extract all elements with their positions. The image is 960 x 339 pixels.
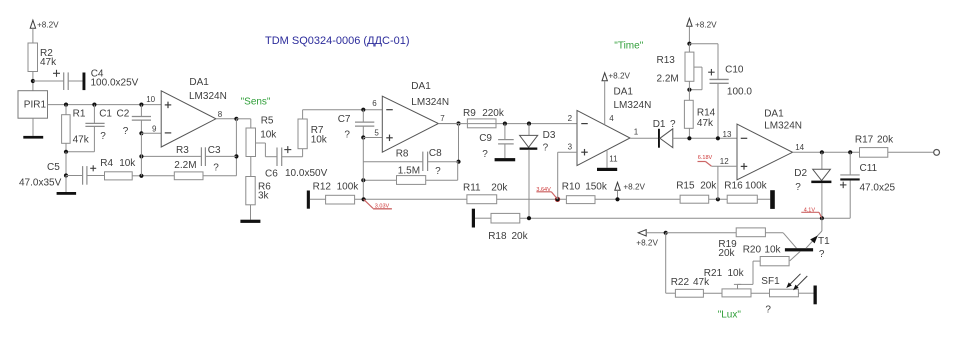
resistor R6 bbox=[246, 177, 271, 205]
wire pin3 net bbox=[558, 143, 577, 200]
resistor R8 bbox=[397, 176, 426, 185]
svg-text:?: ? bbox=[482, 149, 488, 160]
ground under C9 bbox=[495, 158, 516, 161]
ground under PIR1 bbox=[23, 118, 43, 138]
op-amp U1A DA1 bbox=[161, 77, 227, 147]
potentiometer R13 bbox=[657, 44, 703, 90]
svg-text:6.18V: 6.18V bbox=[698, 155, 713, 161]
svg-text:12: 12 bbox=[720, 157, 729, 166]
wire R17 to terminal bbox=[888, 151, 934, 153]
pin 10 label bbox=[146, 95, 155, 104]
svg-text:?: ? bbox=[670, 119, 676, 130]
svg-text:?: ? bbox=[123, 126, 129, 137]
svg-text:10.0x50V: 10.0x50V bbox=[285, 168, 328, 179]
svg-text:?: ? bbox=[100, 131, 106, 142]
svg-text:PIR1: PIR1 bbox=[24, 99, 47, 110]
resistor R20 bbox=[743, 244, 789, 265]
svg-text:3k: 3k bbox=[258, 190, 270, 201]
svg-text:47.0x35V: 47.0x35V bbox=[19, 178, 62, 189]
svg-text:2.2M: 2.2M bbox=[657, 74, 679, 85]
node D3 top bbox=[527, 122, 531, 126]
svg-text:100k: 100k bbox=[337, 182, 360, 193]
svg-text:C9: C9 bbox=[479, 133, 492, 144]
node D2 top bbox=[820, 150, 824, 154]
svg-text:8: 8 bbox=[218, 110, 223, 119]
node C10 bottom bbox=[716, 136, 720, 140]
op-amp U1B DA1 bbox=[382, 81, 449, 152]
node D2 low rail bbox=[820, 216, 824, 220]
capacitor C6 bbox=[265, 146, 328, 179]
potentiometer R21 bbox=[704, 268, 751, 297]
capacitor C3 bbox=[201, 145, 221, 174]
node pin9 bbox=[139, 131, 143, 135]
svg-text:TDM SQ0324-0006 (ДДС-01): TDM SQ0324-0006 (ДДС-01) bbox=[265, 35, 410, 47]
svg-text:R15: R15 bbox=[676, 180, 695, 191]
node D3 low rail bbox=[527, 216, 531, 220]
svg-text:R14: R14 bbox=[697, 107, 716, 118]
resistor R22 bbox=[671, 277, 710, 297]
svg-text:9: 9 bbox=[152, 125, 157, 134]
svg-text:3.03V: 3.03V bbox=[375, 203, 390, 209]
svg-text:D2: D2 bbox=[794, 168, 807, 179]
node rail/x363 bbox=[362, 197, 366, 201]
wire down to C5 node bbox=[65, 152, 67, 176]
node C5 branch bbox=[64, 173, 68, 177]
wire R20 to R21 wiper bbox=[738, 261, 761, 284]
svg-text:1: 1 bbox=[634, 128, 639, 137]
resistor R1 bbox=[62, 105, 90, 152]
feedback vertical x458 bbox=[458, 124, 460, 162]
svg-text:10k: 10k bbox=[764, 244, 781, 255]
svg-text:47k: 47k bbox=[697, 118, 714, 129]
transistor T1 bbox=[785, 218, 830, 261]
node R13/R14 bbox=[687, 88, 691, 92]
wire pin7 to op3 pin2 bbox=[438, 114, 577, 123]
svg-text:C5: C5 bbox=[47, 162, 60, 173]
node R2/C4/PIR1 bbox=[31, 79, 35, 83]
svg-text:+8.2V: +8.2V bbox=[695, 21, 717, 30]
svg-text:4: 4 bbox=[609, 114, 614, 123]
svg-text:"Time": "Time" bbox=[614, 41, 643, 52]
svg-text:100.0x25V: 100.0x25V bbox=[91, 78, 139, 89]
svg-text:C1: C1 bbox=[99, 108, 112, 119]
svg-text:20k: 20k bbox=[718, 248, 735, 259]
op-amp U1D DA1 bbox=[737, 108, 802, 179]
svg-text:?: ? bbox=[765, 305, 771, 316]
wire R4 to node bbox=[132, 175, 141, 177]
svg-text:150k: 150k bbox=[585, 181, 608, 192]
sensor PIR1 bbox=[18, 91, 48, 119]
wire R2 bottom to PIR1 bbox=[32, 72, 34, 91]
node lower feedback2 bbox=[361, 178, 365, 182]
resistor R17 bbox=[855, 135, 894, 158]
common bar at SF1 bbox=[814, 286, 817, 305]
pin 1 output wire bbox=[630, 128, 658, 139]
power +8.2V left arrow bbox=[636, 230, 665, 248]
wire C8 feedback bbox=[363, 161, 458, 163]
svg-text:+8.2V: +8.2V bbox=[37, 20, 59, 29]
svg-text:LM324N: LM324N bbox=[189, 91, 227, 102]
svg-text:C2: C2 bbox=[117, 108, 130, 119]
voltage label 3.03V bbox=[364, 199, 392, 209]
resistor R14 bbox=[684, 81, 715, 138]
svg-text:R20: R20 bbox=[743, 244, 762, 255]
wire R19 to T1 base bbox=[765, 233, 796, 248]
node C2 top pin10 bbox=[139, 103, 143, 107]
wire R21 to SF1 bbox=[751, 292, 770, 294]
resistor R19 bbox=[718, 228, 765, 259]
label Sens bbox=[241, 97, 271, 108]
node C11 top bbox=[848, 150, 852, 154]
svg-text:6: 6 bbox=[372, 99, 377, 108]
diode D2 bbox=[794, 152, 831, 218]
wire lux vertical bbox=[666, 233, 676, 293]
wire lower feedback bbox=[141, 175, 236, 177]
wire bar to R18 bbox=[475, 217, 491, 219]
svg-text:3: 3 bbox=[568, 143, 573, 152]
svg-text:100k: 100k bbox=[745, 180, 768, 191]
pin 7 wire bbox=[438, 114, 458, 124]
node C9 top bbox=[503, 122, 507, 126]
svg-text:47k: 47k bbox=[73, 134, 90, 145]
wire pin9 bbox=[141, 125, 161, 134]
voltage label 4.1V bbox=[801, 207, 821, 217]
node C1 top bbox=[92, 103, 96, 107]
svg-text:LM324N: LM324N bbox=[614, 100, 652, 111]
label Lux bbox=[718, 310, 742, 321]
wire R22 to R21 bbox=[703, 292, 722, 294]
main horizontal rail bbox=[310, 198, 770, 200]
node pin3 rail red bbox=[555, 197, 560, 202]
wire to R19 bbox=[666, 232, 737, 234]
node R14 bottom bbox=[687, 136, 691, 140]
label Time bbox=[614, 41, 643, 52]
wire PIR1 to op-amp pin10 bbox=[48, 104, 162, 106]
svg-text:"Lux": "Lux" bbox=[718, 310, 742, 321]
title label bbox=[265, 35, 410, 47]
wire C3 upper feedback bbox=[141, 155, 236, 157]
feedback vertical x236 bbox=[235, 119, 237, 176]
svg-text:C3: C3 bbox=[208, 145, 221, 156]
vertical net x363 bbox=[362, 138, 364, 200]
svg-text:R12: R12 bbox=[313, 182, 332, 193]
svg-text:DA1: DA1 bbox=[764, 108, 784, 119]
photoresistor SF1 bbox=[761, 276, 798, 316]
node feedback2 upper bbox=[456, 160, 460, 164]
node pin5 bbox=[361, 135, 365, 139]
resistor R16 bbox=[724, 180, 767, 203]
svg-text:47k: 47k bbox=[40, 57, 57, 68]
svg-text:R18: R18 bbox=[488, 231, 507, 242]
wire D3 down to low rail bbox=[528, 150, 530, 218]
pin 12 wire bbox=[711, 157, 737, 199]
vertical net x141 bbox=[140, 133, 142, 176]
capacitor C7 bbox=[338, 110, 375, 141]
potentiometer R21 wiper bbox=[734, 284, 741, 289]
svg-text:R22: R22 bbox=[671, 277, 690, 288]
ground under C5 node bbox=[57, 176, 77, 195]
svg-text:DA1: DA1 bbox=[614, 87, 634, 98]
photo arrows SF1 bbox=[786, 274, 807, 290]
capacitor C5 bbox=[19, 162, 105, 189]
capacitor C1 bbox=[85, 105, 112, 152]
svg-text:11: 11 bbox=[609, 155, 618, 164]
wire pin6 net bbox=[303, 99, 383, 110]
svg-text:R8: R8 bbox=[396, 148, 409, 159]
svg-text:SF1: SF1 bbox=[761, 276, 780, 287]
svg-text:20k: 20k bbox=[700, 180, 717, 191]
capacitor C4 bbox=[53, 69, 139, 90]
svg-text:DA1: DA1 bbox=[411, 81, 431, 92]
svg-text:14: 14 bbox=[795, 143, 804, 152]
svg-text:C10: C10 bbox=[725, 65, 744, 76]
capacitor C2 bbox=[117, 105, 152, 137]
svg-text:DA1: DA1 bbox=[189, 77, 209, 88]
svg-text:+8.2V: +8.2V bbox=[623, 183, 645, 192]
ground under R6 bbox=[240, 205, 260, 223]
svg-text:?: ? bbox=[344, 130, 350, 141]
output terminal bbox=[934, 150, 940, 156]
capacitor C10 bbox=[689, 44, 752, 139]
svg-text:?: ? bbox=[819, 249, 825, 260]
capacitor C11 bbox=[840, 152, 896, 218]
svg-text:R4: R4 bbox=[100, 158, 113, 169]
svg-text:C7: C7 bbox=[338, 114, 351, 125]
svg-text:10k: 10k bbox=[260, 130, 277, 141]
common bar at C4 bbox=[83, 73, 86, 91]
svg-text:R1: R1 bbox=[73, 109, 86, 120]
svg-text:R16: R16 bbox=[724, 180, 743, 191]
potentiometer R5 bbox=[246, 116, 277, 157]
resistor R9 bbox=[463, 108, 505, 128]
node R13 top bbox=[687, 42, 691, 46]
pin 8 wire bbox=[216, 110, 237, 119]
svg-text:20k: 20k bbox=[512, 231, 529, 242]
svg-text:20k: 20k bbox=[877, 135, 894, 146]
node R1 top bbox=[64, 103, 68, 107]
power +8.2V arrow top-left bbox=[30, 20, 59, 43]
wire R5 to R6 bbox=[250, 157, 252, 177]
svg-text:2.2M: 2.2M bbox=[174, 160, 196, 171]
common bar at R18 bbox=[472, 209, 475, 228]
svg-text:T1: T1 bbox=[818, 236, 830, 247]
svg-text:13: 13 bbox=[723, 130, 732, 139]
ground op3 pin11 bbox=[597, 150, 618, 171]
power +8.2V arrow R13 bbox=[687, 18, 717, 43]
svg-text:LM324N: LM324N bbox=[411, 97, 449, 108]
svg-text:220k: 220k bbox=[482, 108, 505, 119]
svg-text:47.0x25: 47.0x25 bbox=[860, 182, 896, 193]
label R3 bbox=[174, 145, 196, 171]
label R8 bbox=[396, 148, 420, 176]
svg-text:R13: R13 bbox=[657, 55, 676, 66]
capacitor C8 bbox=[423, 148, 442, 177]
svg-text:D1: D1 bbox=[653, 119, 666, 130]
svg-text:?: ? bbox=[213, 162, 219, 173]
wire lower feedback2 bbox=[363, 162, 457, 181]
node pin8 bbox=[234, 117, 238, 121]
svg-text:C8: C8 bbox=[429, 148, 442, 159]
low rail wire bbox=[520, 217, 850, 219]
svg-text:R9: R9 bbox=[463, 108, 476, 119]
svg-text:R17: R17 bbox=[855, 135, 874, 146]
power +8.2V arrow op3 pin4 bbox=[602, 71, 631, 125]
svg-text:?: ? bbox=[543, 142, 549, 153]
svg-text:C11: C11 bbox=[860, 163, 878, 174]
common bar at R12 bbox=[307, 191, 310, 209]
svg-text:LM324N: LM324N bbox=[764, 121, 802, 132]
wire D1 to op4 pin13 bbox=[673, 130, 737, 139]
op-amp U1C DA1 bbox=[577, 87, 651, 166]
node lower feedback bbox=[139, 174, 143, 178]
diode D1 bbox=[653, 119, 676, 148]
svg-text:10k: 10k bbox=[311, 135, 328, 146]
wire SF1 to bar bbox=[798, 292, 813, 294]
svg-text:C6: C6 bbox=[265, 168, 278, 179]
svg-text:R10: R10 bbox=[562, 181, 581, 192]
resistor R2 bbox=[28, 43, 57, 72]
resistor R15 bbox=[676, 180, 717, 203]
svg-text:5: 5 bbox=[374, 129, 379, 138]
power +8.2V arrow at rail bbox=[615, 182, 646, 199]
svg-text:+8.2V: +8.2V bbox=[608, 71, 630, 80]
voltage label 3.64V bbox=[536, 187, 557, 199]
svg-text:R3: R3 bbox=[176, 145, 189, 156]
node C3/R4 junction upper bbox=[139, 154, 143, 158]
node pin12 rail bbox=[716, 197, 720, 201]
svg-text:R5: R5 bbox=[261, 116, 274, 127]
node pin7 bbox=[456, 121, 460, 125]
svg-text:1.5M: 1.5M bbox=[398, 165, 420, 176]
svg-text:2: 2 bbox=[568, 114, 573, 123]
node C7 top bbox=[361, 108, 365, 112]
svg-text:R21: R21 bbox=[704, 268, 723, 279]
resistor R12 bbox=[313, 182, 360, 204]
diode D3 bbox=[520, 124, 556, 154]
svg-text:R11: R11 bbox=[463, 182, 481, 193]
svg-text:+8.2V: +8.2V bbox=[636, 239, 658, 248]
svg-text:10k: 10k bbox=[728, 268, 745, 279]
node feedback upper bbox=[234, 154, 238, 158]
svg-text:?: ? bbox=[795, 182, 801, 193]
node R1/C1 bottom bbox=[64, 150, 68, 154]
node +8.2V lux bbox=[664, 231, 668, 235]
svg-text:D3: D3 bbox=[543, 130, 556, 141]
resistor R10 bbox=[562, 181, 608, 203]
svg-text:?: ? bbox=[435, 166, 441, 177]
wire to C4 bbox=[33, 80, 64, 82]
resistor R18 bbox=[488, 213, 528, 242]
svg-text:20k: 20k bbox=[491, 182, 508, 193]
wire C1 bottom to R1 bottom bbox=[66, 151, 94, 153]
svg-text:7: 7 bbox=[440, 114, 445, 123]
capacitor C9 bbox=[479, 124, 514, 160]
pin 14 output wire bbox=[793, 143, 860, 153]
resistor R3 bbox=[174, 172, 203, 180]
wire pin5 bbox=[363, 129, 382, 138]
voltage label 6.18V bbox=[698, 155, 713, 166]
node +8.2V rail bbox=[615, 197, 619, 201]
svg-text:"Sens": "Sens" bbox=[241, 97, 271, 108]
svg-text:10: 10 bbox=[146, 95, 155, 104]
common bar at R16 bbox=[770, 190, 775, 209]
svg-text:100.0: 100.0 bbox=[727, 87, 752, 98]
resistor R11 bbox=[463, 182, 508, 203]
resistor R4 bbox=[100, 158, 136, 180]
svg-text:10k: 10k bbox=[119, 158, 136, 169]
wire pin8 to R5 bbox=[236, 119, 250, 128]
resistor R7 bbox=[298, 110, 328, 157]
